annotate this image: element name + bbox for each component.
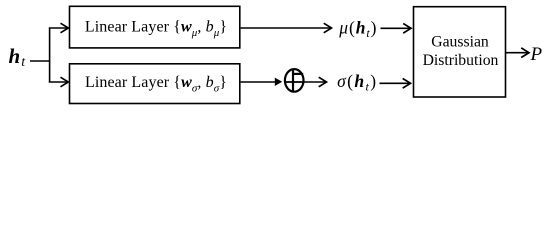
wire through circle [285, 81, 303, 83]
wire from h_t to branch [30, 60, 50, 62]
function nonlinearity circle [285, 69, 304, 92]
svg-text:ht: ht [9, 44, 27, 70]
wire arrow from mu label into gaussian box [381, 27, 411, 29]
svg-text:P: P [530, 44, 543, 65]
box linear layer sigma [70, 64, 240, 104]
wire arrow from gaussian box to P [506, 52, 528, 54]
svg-text:σ(ht): σ(ht) [337, 71, 377, 94]
wire arrow from circle to sigma label [303, 81, 325, 83]
svg-text:μ(ht): μ(ht) [338, 17, 377, 40]
wire vertical branch [49, 28, 51, 82]
function glyph vertical stroke [292, 70, 294, 92]
wire arrow from sigma label into gaussian box [380, 82, 410, 84]
svg-text:Gaussian: Gaussian [431, 33, 489, 50]
function glyph top bar [292, 73, 303, 75]
wire arrow into top linear layer box [49, 27, 68, 29]
box linear layer mu [70, 6, 240, 48]
wire arrow from bottom box to function circle (solid head) [241, 81, 277, 83]
wire arrow into bottom linear layer box [49, 81, 68, 83]
box gaussian distribution [414, 7, 506, 97]
svg-text:Distribution: Distribution [423, 52, 499, 69]
wire arrow from top box to mu label [241, 27, 331, 29]
